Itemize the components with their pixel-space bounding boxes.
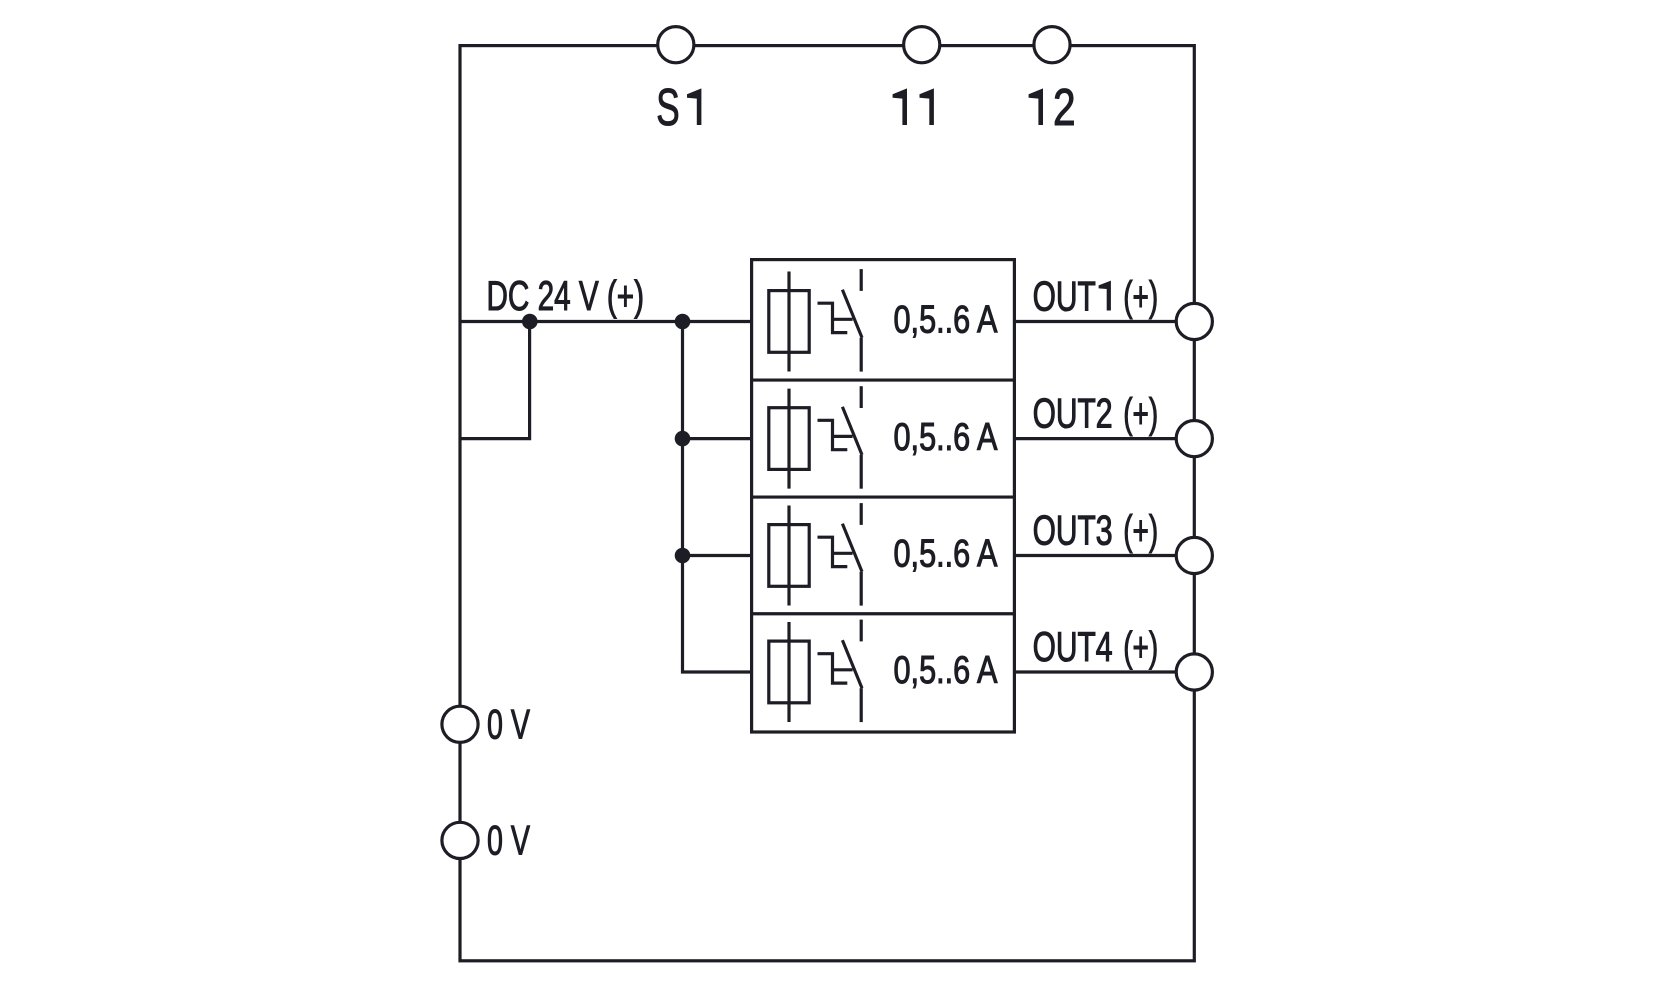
svg-text:0 V: 0 V xyxy=(487,816,530,863)
svg-text:(+): (+) xyxy=(1123,390,1158,437)
terminal 0 V lower xyxy=(442,822,478,858)
block divider 1 xyxy=(752,378,1015,381)
svg-text:0,5..6 A: 0,5..6 A xyxy=(894,299,998,342)
svg-text:0,5..6 A: 0,5..6 A xyxy=(894,649,998,692)
svg-text:0 V: 0 V xyxy=(487,700,530,747)
junction dot bus / channel 3 xyxy=(675,548,691,564)
breaker contact channel 4 xyxy=(818,620,863,723)
terminal OUT2 xyxy=(1176,421,1212,457)
breaker contact channel 1 xyxy=(818,269,863,372)
junction dot at DC bus / branch xyxy=(522,314,538,330)
fuse channel 1 xyxy=(769,272,809,372)
terminal 12 xyxy=(1034,27,1070,63)
fuse channel 2 xyxy=(769,389,809,489)
svg-text:3: 3 xyxy=(1096,507,1113,554)
wire output channel 1 xyxy=(1014,320,1194,323)
terminal 11 xyxy=(904,27,940,63)
svg-text:OUT: OUT xyxy=(1033,623,1096,670)
circuit breaker block outline xyxy=(752,260,1015,732)
svg-text:(+): (+) xyxy=(1123,273,1158,320)
terminal S1 xyxy=(658,27,694,63)
svg-text:OUT: OUT xyxy=(1033,390,1096,437)
wire tap to channel 3 xyxy=(683,554,752,557)
svg-text:(+): (+) xyxy=(1123,507,1158,554)
label 11 xyxy=(893,88,907,125)
breaker contact channel 2 xyxy=(818,386,863,489)
wire tap to channel 2 xyxy=(683,437,752,440)
svg-text:4: 4 xyxy=(1096,623,1113,670)
svg-text:DC 24 V (+): DC 24 V (+) xyxy=(487,272,645,319)
svg-text:OUT: OUT xyxy=(1033,507,1096,554)
wire vertical distribution bus xyxy=(683,322,752,673)
svg-text:S: S xyxy=(656,78,679,136)
fuse channel 4 xyxy=(769,622,809,722)
junction dot bus / channel 1 xyxy=(675,314,691,330)
wire DC 24 V (+) input bus xyxy=(460,320,752,323)
terminal OUT3 xyxy=(1176,537,1212,573)
label 12 xyxy=(1029,88,1043,125)
breaker contact channel 3 xyxy=(818,503,863,605)
terminal OUT4 xyxy=(1176,654,1212,690)
wire output channel 3 xyxy=(1014,554,1194,557)
junction dot bus / channel 2 xyxy=(675,431,691,447)
device outline (module boundary) xyxy=(460,46,1194,961)
svg-text:(+): (+) xyxy=(1123,623,1158,670)
svg-text:2: 2 xyxy=(1053,78,1076,136)
wire output channel 2 xyxy=(1014,437,1194,440)
wire output channel 4 xyxy=(1014,670,1194,673)
svg-text:0,5..6 A: 0,5..6 A xyxy=(894,533,998,576)
terminal 0 V upper xyxy=(442,706,478,742)
wire branch loop down-left to left rail xyxy=(460,322,530,439)
svg-text:2: 2 xyxy=(1096,390,1113,437)
svg-text:0,5..6 A: 0,5..6 A xyxy=(894,416,998,459)
fuse channel 3 xyxy=(769,506,809,606)
svg-text:OUT: OUT xyxy=(1033,273,1096,320)
block divider 2 xyxy=(752,495,1015,498)
block divider 3 xyxy=(752,612,1015,615)
terminal OUT1 xyxy=(1176,303,1212,339)
